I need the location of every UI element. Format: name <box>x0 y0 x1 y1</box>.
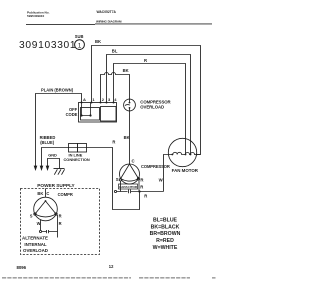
wire BK overload to compressor C <box>129 111 131 164</box>
wire plain brown: power cord to switch terminal A <box>36 94 82 167</box>
svg-text:WIRING DIAGRAM: WIRING DIAGRAM <box>96 20 122 24</box>
fan motor circle <box>168 138 196 166</box>
svg-text:FAN MOTOR: FAN MOTOR <box>172 168 199 173</box>
svg-text:SUB: SUB <box>75 34 84 39</box>
svg-text:R: R <box>112 140 115 145</box>
wire R down <box>57 215 59 238</box>
label IN LINE CONNECTION <box>64 153 90 162</box>
svg-text:S: S <box>116 177 119 182</box>
svg-text:309103301: 309103301 <box>19 40 76 51</box>
compressor windings <box>121 164 139 181</box>
ground symbol <box>54 169 65 175</box>
compressor overload circle <box>124 99 136 111</box>
svg-text:8096: 8096 <box>17 265 27 270</box>
svg-text:PLAIN (BROWN): PLAIN (BROWN) <box>41 88 74 93</box>
wire W: capacitor line up to fan motor <box>164 155 169 192</box>
label RIBBED (BLUE) <box>40 135 56 145</box>
svg-text:S: S <box>30 214 33 219</box>
svg-text:R: R <box>140 185 143 190</box>
svg-text:BL=BLUE: BL=BLUE <box>153 218 178 224</box>
svg-text:GND: GND <box>48 152 57 157</box>
svg-text:(BLUE): (BLUE) <box>40 140 55 145</box>
switch terminal labels A 1 2 3 4 <box>83 97 117 102</box>
alternate internal overload contact <box>45 200 47 202</box>
svg-text:BK: BK <box>124 135 130 140</box>
svg-text:CODE: CODE <box>66 112 78 117</box>
svg-text:WAC052T7A: WAC052T7A <box>97 10 117 14</box>
alternate internal overload dashed box <box>21 189 100 255</box>
wire S to capacitor <box>40 220 42 231</box>
wire S to capacitor <box>120 181 122 192</box>
svg-text:1: 1 <box>78 43 82 50</box>
svg-text:ALTERNATE: ALTERNATE <box>22 236 48 241</box>
svg-text:OFF: OFF <box>69 107 78 112</box>
alternate compressor circle <box>34 197 58 221</box>
power cord arrows <box>34 166 50 171</box>
svg-text:W: W <box>37 221 41 226</box>
wire BK top loop: switch terminal 1 to fan motor right <box>92 46 201 155</box>
header rule <box>26 23 212 26</box>
wire ribbed blue: power cord through in-line connection to compressor R <box>42 148 140 210</box>
svg-text:COMPR: COMPR <box>58 192 73 197</box>
svg-text:C: C <box>46 191 49 196</box>
wire BL: switch terminal 3 to fan motor <box>107 55 191 155</box>
svg-text:R: R <box>59 221 62 226</box>
alternate terminal circles <box>34 213 36 215</box>
svg-text:BK: BK <box>95 39 101 44</box>
wire BK short: switch terminal 2 to compressor overload, hops over BL and R <box>101 73 130 103</box>
label ALTERNATE INTERNAL OVERLOAD <box>22 236 48 254</box>
wire compressor R down to node <box>138 180 140 192</box>
node dot R junction <box>138 190 140 192</box>
svg-text:W=WHITE: W=WHITE <box>153 245 178 251</box>
svg-text:BK: BK <box>37 191 43 196</box>
switch off contacts <box>82 103 91 116</box>
svg-text:R: R <box>144 194 147 199</box>
switch terminal dots <box>81 102 115 104</box>
wire R: switch terminal 4 to fan motor <box>114 64 186 155</box>
label COMPRESSOR OVERLOAD <box>140 100 171 110</box>
header publication text <box>27 10 50 17</box>
svg-text:R=RED: R=RED <box>156 238 174 244</box>
svg-text:5995409910: 5995409910 <box>27 14 44 18</box>
svg-text:POWER SUPPLY: POWER SUPPLY <box>37 183 75 188</box>
svg-text:OVERLOAD: OVERLOAD <box>140 104 164 109</box>
compressor motor circle <box>120 164 140 184</box>
footer microprint dashes <box>2 277 216 279</box>
alternate compressor windings <box>35 201 56 217</box>
svg-text:COMPRESSOR: COMPRESSOR <box>141 164 170 169</box>
fan motor winding <box>169 152 201 154</box>
svg-text:BL: BL <box>112 48 118 53</box>
svg-text:R: R <box>144 58 147 63</box>
svg-text:INTERNAL: INTERNAL <box>24 242 47 247</box>
header model text <box>96 10 122 24</box>
svg-text:BR=BROWN: BR=BROWN <box>150 231 181 237</box>
svg-text:C: C <box>132 159 135 164</box>
compressor terminal circles <box>119 179 121 181</box>
capacitor symbol and line <box>114 190 116 192</box>
svg-text:BK: BK <box>123 68 129 73</box>
alternate capacitor <box>39 230 41 232</box>
svg-text:CONNECTION: CONNECTION <box>64 157 90 162</box>
sub revision circle 1 <box>75 40 85 50</box>
svg-text:BK=BLACK: BK=BLACK <box>151 224 180 230</box>
svg-text:12: 12 <box>109 264 114 269</box>
in-line connection boxes <box>69 144 78 153</box>
colour legend <box>150 218 181 252</box>
capacitor label box <box>119 184 138 189</box>
svg-text:OVERLOAD: OVERLOAD <box>23 248 48 253</box>
svg-text:R: R <box>59 213 62 218</box>
label OFF CODE <box>66 107 78 117</box>
svg-text:CAPACITOR: CAPACITOR <box>119 185 138 189</box>
selector switch box <box>79 103 117 123</box>
svg-text:A: A <box>83 97 86 102</box>
wire ground: cord to chassis ground <box>48 159 60 169</box>
wire C stub alternate compressor <box>45 189 47 198</box>
